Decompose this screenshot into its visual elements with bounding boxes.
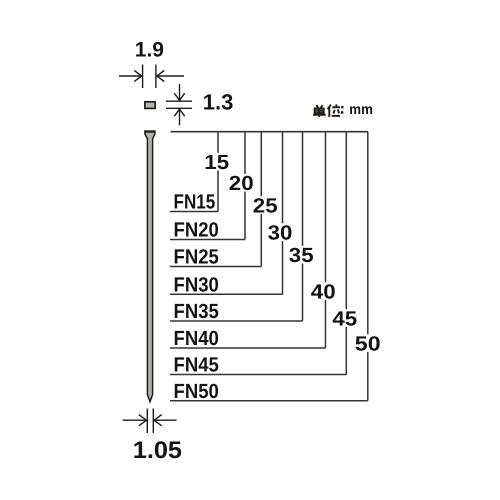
kanji 単 <box>317 105 323 108</box>
length label 20 <box>228 174 255 192</box>
wire: vertical line for FN20 (20mm) <box>244 132 246 240</box>
dimension 1.3: upper extension line <box>166 100 192 102</box>
svg-text:25: 25 <box>253 195 278 218</box>
wire: FN50 step line <box>170 400 368 402</box>
wire: vertical line for FN25 (25mm) <box>260 132 262 267</box>
svg-text:FN50: FN50 <box>174 380 219 403</box>
dimension 1.05: right tick <box>152 409 154 434</box>
wire: FN40 step line <box>170 347 326 349</box>
dimension 1.3: upper arrow (pointing down) <box>174 84 184 101</box>
svg-text:FN15: FN15 <box>174 191 216 214</box>
svg-text:FN20: FN20 <box>174 219 219 242</box>
wire: top horizontal line of length chart <box>171 131 369 133</box>
svg-text:45: 45 <box>332 307 357 330</box>
svg-text:1.3: 1.3 <box>203 90 234 115</box>
svg-text:FN25: FN25 <box>174 246 219 269</box>
dimension 1.3: lower arrow (pointing up) <box>174 109 184 125</box>
dimension 1.9: left arrow line <box>119 70 142 81</box>
wire: FN20 step line <box>170 239 245 241</box>
wire: FN30 step line <box>170 293 283 295</box>
length label 25 <box>252 196 279 214</box>
dimension 1.9: right arrow line <box>157 70 184 81</box>
wire: FN45 step line <box>170 374 346 376</box>
kanji 位 <box>328 105 331 117</box>
svg-text:15: 15 <box>204 151 229 174</box>
dimension 1.05: right arrow line <box>154 415 177 426</box>
dimension 1.3: lower extension line <box>166 107 192 109</box>
wire: vertical line for FN35 (35mm) <box>302 132 304 321</box>
svg-text:FN45: FN45 <box>174 354 219 377</box>
wire: vertical line for FN30 (30mm) <box>282 132 284 295</box>
nail head top view (1.9 x 1.3 rectangle) <box>145 102 155 109</box>
dimension 1.9: left tick <box>142 65 144 89</box>
svg-text:1.05: 1.05 <box>133 437 182 464</box>
dimension 1.9: right tick <box>155 65 157 89</box>
length label 35 <box>288 246 315 264</box>
length label 50 <box>354 334 381 352</box>
svg-text:FN40: FN40 <box>174 327 219 350</box>
length label 45 <box>331 309 358 327</box>
nail FN50 (front view: head, shaft, point) <box>145 131 155 402</box>
fullwidth colon of 単位：mm <box>341 106 343 108</box>
svg-text:35: 35 <box>289 244 314 267</box>
svg-text:mm: mm <box>349 102 373 118</box>
dimension 1.05: left tick <box>146 409 148 434</box>
wire: vertical line for FN40 (40mm) <box>325 132 327 348</box>
length label 30 <box>266 223 293 241</box>
svg-text:40: 40 <box>311 281 336 304</box>
wire: FN15 step line <box>170 211 218 213</box>
wire: FN25 step line <box>170 266 261 268</box>
dimension 1.05: left arrow line <box>123 415 147 426</box>
wire: FN35 step line <box>170 320 303 322</box>
svg-text:FN30: FN30 <box>174 273 219 296</box>
svg-text:1.9: 1.9 <box>135 38 164 61</box>
length label 15 <box>203 153 230 171</box>
wire: vertical line for FN50 (50mm) <box>367 132 369 401</box>
svg-text:FN35: FN35 <box>174 300 219 323</box>
wire: vertical line for FN15 (15mm) <box>217 132 219 212</box>
svg-text:50: 50 <box>355 333 381 356</box>
svg-text:30: 30 <box>268 222 293 245</box>
unit note: 単位：mm (kanji drawn as strokes) <box>313 104 340 117</box>
wire: vertical line for FN45 (45mm) <box>345 132 347 375</box>
length label 40 <box>310 282 337 300</box>
svg-text:20: 20 <box>229 172 254 195</box>
